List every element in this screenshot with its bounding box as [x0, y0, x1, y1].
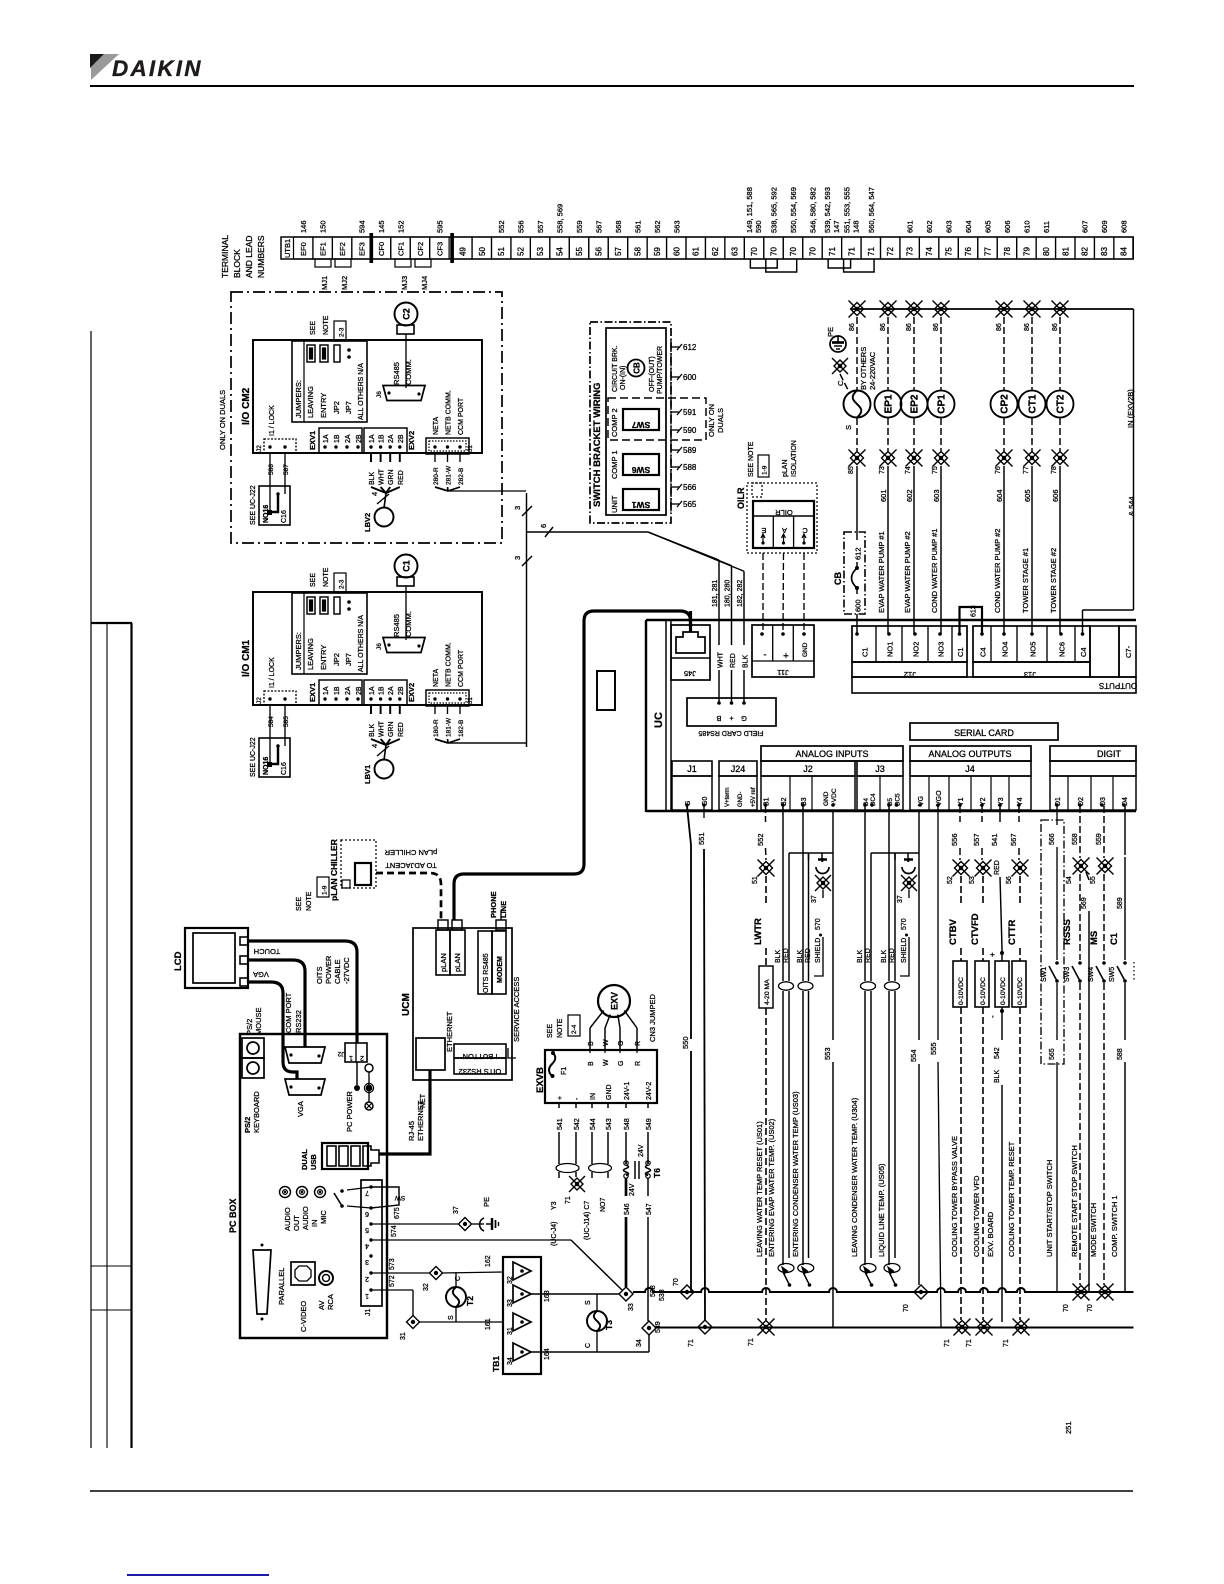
- bus 539: [656, 1326, 1134, 1328]
- svg-text:55: 55: [575, 247, 584, 256]
- digital inputs header: [1050, 746, 1136, 761]
- svg-text:PC BOX: PC BOX: [228, 1198, 238, 1233]
- svg-text:565: 565: [683, 500, 697, 509]
- sensor pair U305 wires B5: [888, 806, 890, 981]
- svg-text:70: 70: [673, 1278, 680, 1286]
- svg-text:4: 4: [370, 744, 379, 748]
- svg-text:LWTR: LWTR: [753, 918, 764, 945]
- svg-text:GRN: GRN: [388, 469, 395, 485]
- EXV board wire 542 BLK: [1000, 1009, 1004, 1013]
- svg-text:NETA: NETA: [433, 417, 440, 435]
- svg-text:CN3 JUMPED: CN3 JUMPED: [648, 993, 657, 1042]
- svg-text:590: 590: [683, 426, 697, 435]
- I/O CM1 wires to NO16: [269, 705, 271, 762]
- svg-text:+5V ref: +5V ref: [751, 787, 757, 807]
- wire 606 TOWER STAGE #2: [1059, 466, 1061, 634]
- bus junction above EP1: [880, 301, 897, 318]
- wire 603 COND WATER PUMP #1: [940, 466, 942, 634]
- wire bus to S: [856, 317, 858, 390]
- PE ground symbol: [830, 336, 846, 352]
- svg-text:CF2: CF2: [416, 242, 425, 256]
- svg-text:31: 31: [507, 1327, 514, 1335]
- svg-text:1B: 1B: [379, 686, 386, 695]
- svg-text:54: 54: [556, 247, 565, 256]
- svg-text:552: 552: [497, 220, 506, 233]
- switch SW1: [1055, 961, 1059, 965]
- svg-text:613: 613: [971, 605, 978, 617]
- wire count 6: [545, 527, 553, 537]
- LCD vga cable: [248, 982, 297, 1079]
- connector J11: [752, 625, 814, 677]
- transformer S: [844, 391, 871, 418]
- svg-text:180, 280: 180, 280: [725, 580, 732, 607]
- svg-text:pLAN CHILLER: pLAN CHILLER: [329, 839, 339, 901]
- svg-text:S: S: [585, 1300, 592, 1305]
- svg-text:RS232: RS232: [294, 1010, 303, 1033]
- wire 550: [687, 806, 691, 845]
- shield ground flag 1: [816, 867, 829, 874]
- svg-text:595: 595: [435, 220, 444, 233]
- svg-text:EF1: EF1: [319, 242, 328, 256]
- svg-text:600: 600: [683, 373, 697, 382]
- svg-text:70: 70: [808, 247, 817, 256]
- svg-text:86: 86: [996, 323, 1003, 331]
- analog inputs header: [761, 746, 903, 761]
- terminal 51 #2: [492, 237, 511, 259]
- svg-text:COND WATER PUMP #1: COND WATER PUMP #1: [930, 529, 939, 613]
- circuit breaker CB box: [844, 532, 865, 614]
- svg-text:538: 538: [659, 1289, 666, 1301]
- svg-text:ALL OTHERS N/A: ALL OTHERS N/A: [358, 615, 365, 672]
- bottom rule: [90, 1490, 1133, 1492]
- svg-text:NOTE: NOTE: [557, 1018, 564, 1038]
- svg-text:SHIELD: SHIELD: [901, 938, 908, 963]
- svg-text:NO1: NO1: [886, 642, 895, 657]
- svg-text:NOTE: NOTE: [323, 567, 330, 587]
- wire 573: [371, 1272, 430, 1274]
- PE tail wire: [840, 374, 849, 392]
- contactor coil CP2: [991, 391, 1018, 418]
- svg-text:JP2: JP2: [332, 401, 341, 414]
- wire stub 600: [671, 376, 679, 378]
- pLAN chiller dashed cable: [376, 873, 441, 920]
- I/O CM2 EXV2 pins: [364, 428, 407, 453]
- svg-text:CTBV: CTBV: [948, 918, 959, 945]
- terminal CF1: [391, 237, 410, 259]
- svg-text:EXV2: EXV2: [407, 683, 416, 702]
- wire 569 branch: [1086, 872, 1089, 880]
- svg-text:TOWER STAGE #2: TOWER STAGE #2: [1049, 548, 1058, 613]
- wire CT1 down: [1031, 418, 1033, 451]
- wire stub 588: [671, 466, 679, 468]
- svg-text:LBV1: LBV1: [363, 765, 372, 784]
- svg-text:587: 587: [283, 464, 290, 475]
- svg-text:50: 50: [478, 247, 487, 256]
- svg-text:JP2: JP2: [332, 653, 341, 666]
- svg-text:1-9: 1-9: [762, 465, 769, 475]
- svg-text:49: 49: [458, 247, 467, 256]
- svg-text:OITS RS485: OITS RS485: [483, 953, 490, 993]
- svg-text:565: 565: [1049, 1048, 1056, 1060]
- spare cell: [1090, 626, 1119, 677]
- UC controller box outline: [646, 619, 1136, 621]
- contactor coil EP2: [901, 391, 928, 418]
- svg-text:CB: CB: [833, 572, 843, 585]
- J1 strip PC box: [361, 1180, 382, 1306]
- svg-text:COMM.: COMM.: [404, 611, 413, 637]
- svg-text:76: 76: [995, 466, 1002, 474]
- I/O CM2 NO16 C16 box: [259, 486, 290, 525]
- svg-text:BLK: BLK: [369, 723, 376, 737]
- outputs band: [852, 677, 1136, 693]
- svg-text:RED: RED: [805, 948, 812, 963]
- svg-text:594: 594: [358, 220, 367, 233]
- svg-text:C: C: [802, 526, 808, 535]
- svg-text:E: E: [761, 526, 766, 535]
- terminal 70 #17: [783, 237, 802, 259]
- svg-text:-: -: [988, 1015, 997, 1018]
- svg-text:+: +: [557, 1096, 564, 1100]
- junction below CT2: [1052, 450, 1069, 467]
- svg-text:75: 75: [932, 466, 939, 474]
- svg-text:JP7: JP7: [344, 401, 353, 414]
- svg-text:ANALOG INPUTS: ANALOG INPUTS: [795, 749, 868, 759]
- svg-text:562: 562: [653, 220, 662, 233]
- svg-text:VGA: VGA: [253, 970, 269, 979]
- switch SW3: [1078, 961, 1082, 965]
- svg-text:280-R: 280-R: [433, 467, 440, 485]
- svg-text:NO2: NO2: [912, 642, 921, 657]
- sensor pair U303 wires B2: [782, 806, 784, 981]
- UCM OITS RS485 cell: [478, 931, 492, 994]
- svg-text:2-3: 2-3: [339, 579, 346, 589]
- terminal 72 #22: [881, 237, 900, 259]
- svg-text:58: 58: [633, 247, 642, 256]
- svg-text:C: C: [836, 380, 845, 386]
- wire bus to CP2: [1003, 317, 1005, 390]
- svg-text:NC6: NC6: [1058, 642, 1067, 657]
- I/O CM2 wires to NO16: [269, 453, 271, 510]
- svg-text:555: 555: [929, 1042, 938, 1055]
- svg-text:82: 82: [1081, 247, 1090, 256]
- terminal 75 #25: [939, 237, 958, 259]
- svg-text:PHONE: PHONE: [489, 891, 498, 918]
- svg-text:610: 610: [1022, 220, 1031, 233]
- svg-text:81: 81: [1061, 247, 1070, 256]
- svg-text:563: 563: [672, 220, 681, 233]
- svg-text:556: 556: [950, 833, 959, 846]
- J5 digital terminals: [1050, 776, 1136, 810]
- terminal CF0: [371, 237, 390, 259]
- svg-text:541: 541: [990, 833, 999, 846]
- svg-text:PE: PE: [826, 327, 835, 337]
- svg-text:C-VIDEO: C-VIDEO: [299, 1301, 308, 1332]
- svg-text:IN: IN: [590, 1093, 597, 1100]
- terminal 81 #31: [1056, 237, 1075, 259]
- top rule: [90, 85, 1134, 87]
- svg-text:Y3: Y3: [551, 1201, 558, 1210]
- svg-text:CCM PORT: CCM PORT: [458, 649, 465, 687]
- left table inner line: [106, 623, 108, 1448]
- svg-text:538, 565, 592: 538, 565, 592: [770, 187, 779, 233]
- svg-text:J1: J1: [687, 764, 697, 774]
- breaker CB symbol: [628, 360, 645, 377]
- svg-text:EXVB: EXVB: [535, 1067, 546, 1093]
- svg-text:EXV2: EXV2: [407, 431, 416, 450]
- svg-text:EF0: EF0: [299, 242, 308, 256]
- svg-text:OFF-(OUT): OFF-(OUT): [649, 356, 656, 392]
- svg-text:604: 604: [995, 489, 1004, 502]
- svg-text:IN: IN: [310, 1220, 319, 1228]
- svg-text:601: 601: [879, 489, 888, 502]
- twisted pair 541-542: [556, 1164, 579, 1173]
- svg-text:33: 33: [628, 1303, 635, 1311]
- svg-text:570: 570: [815, 918, 822, 930]
- I/O CM2 valve LBV2: [375, 508, 394, 527]
- svg-text:SERIAL CARD: SERIAL CARD: [954, 728, 1014, 738]
- svg-text:T3: T3: [604, 1320, 614, 1330]
- transformer T3: [587, 1311, 607, 1331]
- I/O CM2 EXV1 pins: [319, 428, 362, 453]
- svg-text:543: 543: [606, 1118, 613, 1130]
- svg-text:SERVICE ACCESS: SERVICE ACCESS: [512, 977, 521, 1042]
- jumper wire to C4: [1083, 609, 1134, 611]
- svg-text:70: 70: [903, 1304, 910, 1312]
- svg-text:NO3: NO3: [937, 642, 946, 657]
- svg-text:2A: 2A: [388, 434, 395, 443]
- terminal 78 #28: [997, 237, 1016, 259]
- terminal 74 #24: [919, 237, 938, 259]
- svg-text:RED: RED: [889, 948, 896, 963]
- svg-text:(UC-J14) C7: (UC-J14) C7: [584, 1201, 591, 1240]
- I/O CM2 comm circle C2: [395, 303, 418, 326]
- svg-text:EXV. BOARD: EXV. BOARD: [986, 1211, 995, 1257]
- svg-text:78: 78: [1003, 247, 1012, 256]
- svg-text:79: 79: [1022, 247, 1031, 256]
- J3 terminals: [857, 776, 903, 810]
- bus 538: [633, 1288, 1134, 1292]
- svg-text:GND: GND: [802, 642, 809, 657]
- terminal 63 #14: [725, 237, 744, 259]
- svg-text:612: 612: [854, 547, 863, 560]
- connector J45: [671, 625, 710, 680]
- svg-text:589: 589: [1117, 897, 1124, 909]
- svg-text:34: 34: [507, 1357, 514, 1365]
- wire 588: [1124, 983, 1126, 1040]
- terminal 76 #26: [958, 237, 977, 259]
- svg-text:566: 566: [1049, 833, 1056, 845]
- wire 164 to junction 34: [597, 1351, 649, 1353]
- svg-text:OITS RS232: OITS RS232: [459, 1067, 502, 1076]
- svg-text:-: -: [763, 649, 766, 660]
- EXV wires to EXVB: [589, 1028, 591, 1050]
- svg-text:BLK: BLK: [369, 471, 376, 485]
- svg-text:JUMPERS:: JUMPERS:: [294, 380, 303, 418]
- wire 163: [531, 1293, 620, 1295]
- svg-text:605: 605: [1023, 489, 1032, 502]
- terminal 50 #1: [472, 237, 491, 259]
- terminal 70 #18: [803, 237, 822, 259]
- svg-text:24V-2: 24V-2: [646, 1082, 653, 1100]
- switch bracket wiring box: [590, 322, 671, 523]
- svg-text:570: 570: [901, 918, 908, 930]
- Daikin logo mark: [91, 54, 119, 80]
- svg-text:MS: MS: [1089, 931, 1100, 945]
- bus junction above CP2: [996, 301, 1013, 318]
- left table divider 2: [91, 1309, 132, 1311]
- svg-text:559: 559: [575, 220, 584, 233]
- svg-text:73: 73: [879, 466, 886, 474]
- svg-text:OUTPUTS: OUTPUTS: [1099, 681, 1137, 690]
- svg-text:SW1: SW1: [632, 500, 651, 510]
- terminal 59 #10: [647, 237, 666, 259]
- comm trunk 6-wire: [526, 493, 528, 747]
- svg-text:B: B: [588, 1041, 595, 1046]
- svg-text:161: 161: [485, 1318, 492, 1330]
- svg-text:J1: J1: [467, 445, 474, 452]
- switch SW4: [1102, 961, 1106, 965]
- svg-text:NETA: NETA: [433, 669, 440, 687]
- svg-text:251: 251: [1064, 1421, 1073, 1434]
- svg-text:AUDIO: AUDIO: [301, 1206, 310, 1230]
- svg-text:TOWER STAGE #1: TOWER STAGE #1: [1021, 548, 1030, 613]
- wire 543 tail: [607, 1172, 609, 1178]
- svg-text:(UC-J4): (UC-J4): [551, 1222, 558, 1247]
- svg-text:C1: C1: [1109, 932, 1120, 945]
- svg-text:1B: 1B: [379, 434, 386, 443]
- sensor pair U304 wires B4: [864, 806, 866, 981]
- C-VIDEO port: [291, 1262, 315, 1285]
- LCD touch cable to J2: [248, 941, 357, 1043]
- 24V power bus: [851, 308, 1134, 310]
- I/O CM1 jumpers box: [292, 593, 367, 674]
- svg-text:588: 588: [1117, 1048, 1124, 1060]
- svg-text:IN (EXV2B): IN (EXV2B): [1126, 389, 1135, 428]
- svg-text:SEE UC-J22: SEE UC-J22: [250, 485, 257, 525]
- svg-text:2A: 2A: [345, 434, 352, 443]
- contactor coil CT1: [1019, 391, 1046, 418]
- connector J3 header: [857, 761, 903, 776]
- svg-text:34: 34: [636, 1339, 643, 1347]
- svg-text:145: 145: [377, 220, 386, 233]
- svg-text:182, 282: 182, 282: [737, 580, 744, 607]
- wire 552 LWTR: [765, 806, 767, 822]
- J4 terminals: [910, 776, 1031, 810]
- svg-text:GND: GND: [823, 791, 830, 806]
- svg-text:DUAL: DUAL: [300, 1149, 309, 1170]
- svg-text:ENTERING EVAP WATER TEMP. (US0: ENTERING EVAP WATER TEMP. (US02): [767, 1118, 776, 1257]
- svg-text:181-W: 181-W: [446, 717, 453, 737]
- svg-text:84: 84: [1120, 247, 1129, 256]
- shield wire group1: [832, 810, 834, 853]
- terminal 53 #4: [530, 237, 549, 259]
- svg-text:85: 85: [848, 466, 855, 474]
- terminal 61 #12: [686, 237, 705, 259]
- junction 552 bus2: [758, 1319, 775, 1336]
- svg-text:605: 605: [983, 220, 992, 233]
- svg-text:I1 / LOCK: I1 / LOCK: [269, 405, 276, 436]
- svg-text:3: 3: [365, 1258, 369, 1265]
- svg-text:MJ4: MJ4: [420, 276, 429, 290]
- svg-text:604: 604: [964, 220, 973, 233]
- svg-text:+: +: [988, 952, 997, 957]
- wire 558 down: [1079, 874, 1081, 960]
- svg-text:COOLING TOWER TEMP. RESET: COOLING TOWER TEMP. RESET: [1007, 1141, 1016, 1257]
- svg-text:546: 546: [624, 1203, 631, 1215]
- svg-text:70: 70: [789, 247, 798, 256]
- svg-text:OITS: OITS: [315, 966, 324, 984]
- svg-text:COM PORT: COM PORT: [284, 992, 293, 1033]
- svg-text:ETHERNET: ETHERNET: [416, 1100, 425, 1141]
- svg-text:T2: T2: [465, 1296, 475, 1306]
- svg-text:59: 59: [653, 247, 662, 256]
- I/O CM1 EXV1 pins: [319, 680, 362, 705]
- svg-text:TOUCH: TOUCH: [254, 947, 281, 956]
- junction 33: [619, 1287, 633, 1301]
- wire S down: [856, 418, 858, 451]
- svg-text:AND LEAD: AND LEAD: [244, 235, 254, 278]
- OILR dotted box: [747, 483, 817, 553]
- svg-text:1B: 1B: [334, 686, 341, 695]
- terminal 57 #8: [608, 237, 627, 259]
- wire 559 MS: [1103, 806, 1105, 858]
- svg-text:NO5: NO5: [1029, 642, 1038, 657]
- svg-text:MIC: MIC: [319, 1210, 328, 1224]
- svg-text:86: 86: [1024, 323, 1031, 331]
- svg-text:MJ1: MJ1: [320, 276, 329, 290]
- switch SW5: [1123, 961, 1127, 965]
- svg-text:539, 542, 593: 539, 542, 593: [823, 187, 832, 233]
- terminal 52 #3: [511, 237, 530, 259]
- J2 power connector: [345, 1043, 367, 1062]
- svg-text:24V: 24V: [638, 1144, 645, 1157]
- svg-text:I/O CM2: I/O CM2: [241, 387, 252, 425]
- CM1 J1 wire to trunk: [448, 742, 527, 744]
- wire 551: [703, 806, 705, 818]
- svg-text:71: 71: [565, 1196, 572, 1204]
- svg-text:CP2: CP2: [1000, 394, 1011, 414]
- switch bracket inner box: [606, 328, 666, 515]
- MJ3 jumper: [395, 259, 411, 267]
- terminal 71 #20: [842, 237, 861, 259]
- FIELD CARD RS485 box: [687, 698, 776, 726]
- svg-text:33: 33: [507, 1299, 514, 1307]
- svg-text:pLAN: pLAN: [439, 953, 448, 972]
- svg-text:164: 164: [544, 1348, 551, 1360]
- svg-text:282-B: 282-B: [458, 468, 465, 485]
- svg-text:+: +: [729, 714, 734, 723]
- twisted pair 544-543: [589, 1164, 612, 1173]
- terminal 60 #11: [667, 237, 686, 259]
- svg-text:551: 551: [697, 832, 706, 845]
- svg-text:C4: C4: [1079, 647, 1088, 657]
- svg-text:2B: 2B: [398, 686, 405, 695]
- svg-text:C2: C2: [402, 308, 412, 320]
- relay output block J12: [852, 626, 967, 662]
- svg-text:LEAVING: LEAVING: [306, 638, 315, 670]
- svg-text:NETB COMM.: NETB COMM.: [446, 642, 453, 687]
- svg-text:574: 574: [391, 1225, 398, 1237]
- svg-text:611: 611: [1042, 221, 1051, 233]
- svg-text:37: 37: [897, 895, 904, 903]
- terminal EF3: [352, 237, 371, 259]
- svg-text:1B: 1B: [334, 434, 341, 443]
- svg-text:J2: J2: [256, 445, 263, 452]
- svg-text:1A: 1A: [369, 434, 376, 443]
- svg-text:R: R: [635, 1041, 642, 1046]
- svg-text:C1: C1: [402, 560, 412, 572]
- svg-text:558, 569: 558, 569: [556, 204, 565, 233]
